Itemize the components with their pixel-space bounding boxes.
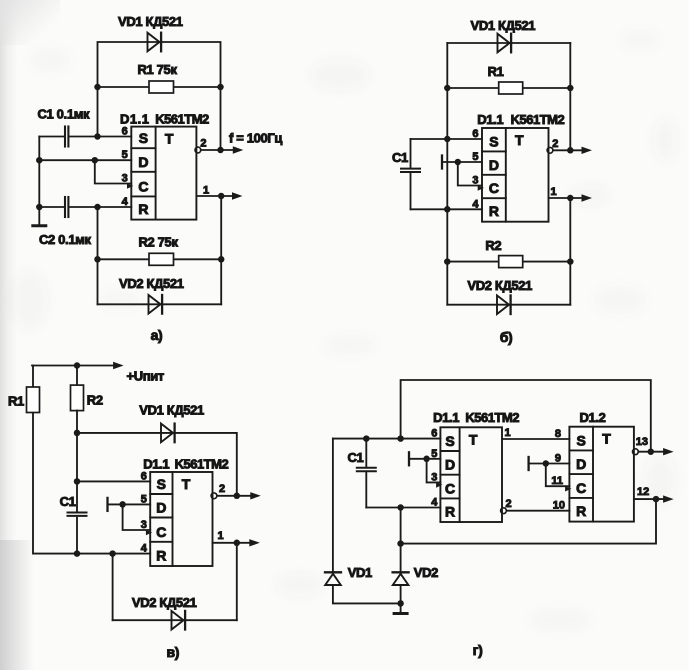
svg-text:б): б) [500,329,513,345]
svg-text:C: C [576,480,586,496]
svg-text:4: 4 [472,198,479,210]
svg-text:T: T [602,431,611,447]
svg-text:T: T [515,132,524,148]
svg-text:S: S [445,433,454,449]
svg-text:D: D [138,154,148,170]
svg-text:R: R [138,201,148,217]
svg-text:R: R [156,548,166,564]
svg-text:6: 6 [141,470,147,482]
svg-text:R1 75к: R1 75к [138,62,178,77]
svg-text:S: S [157,476,166,492]
svg-text:K561TM2: K561TM2 [155,112,209,127]
svg-text:3: 3 [141,519,147,531]
svg-text:D1.1: D1.1 [477,112,503,127]
svg-text:D1.2: D1.2 [580,410,606,425]
svg-text:K561TM2: K561TM2 [465,410,519,425]
svg-text:VD1: VD1 [348,565,372,580]
svg-text:C1: C1 [348,450,364,465]
svg-text:4: 4 [122,196,129,208]
svg-text:а): а) [151,327,163,343]
svg-text:D: D [445,457,455,473]
svg-text:C: C [445,480,455,496]
svg-text:D1.1: D1.1 [433,410,459,425]
svg-text:R2: R2 [87,393,103,408]
svg-text:S: S [139,130,148,146]
svg-text:T: T [165,131,174,147]
svg-text:C2 0.1мк: C2 0.1мк [39,232,91,247]
svg-text:4: 4 [431,497,438,509]
svg-text:3: 3 [472,175,478,187]
svg-text:D: D [576,456,586,472]
svg-text:S: S [577,432,586,448]
svg-text:1: 1 [505,427,511,439]
svg-text:6: 6 [122,126,128,138]
svg-text:10: 10 [553,500,565,512]
svg-text:R: R [576,503,586,519]
svg-text:VD2 КД521: VD2 КД521 [132,595,197,610]
svg-text:5: 5 [472,151,478,163]
svg-text:S: S [489,133,498,149]
svg-text:5: 5 [122,149,128,161]
svg-text:8: 8 [555,428,561,440]
svg-text:R2: R2 [485,238,501,253]
svg-text:5: 5 [431,448,437,460]
svg-text:11: 11 [551,475,563,487]
svg-text:T: T [469,431,478,447]
svg-text:C: C [489,180,499,196]
svg-text:K561TM2: K561TM2 [511,112,565,127]
svg-text:VD1 КД521: VD1 КД521 [118,14,183,29]
svg-text:+Uпит: +Uпит [127,369,164,384]
svg-text:R: R [445,504,455,520]
svg-text:R2 75к: R2 75к [139,234,179,249]
svg-text:D: D [156,500,166,516]
svg-text:4: 4 [141,543,148,555]
svg-text:1: 1 [551,186,557,198]
svg-text:R: R [489,203,499,219]
svg-text:3: 3 [431,471,437,483]
svg-text:2: 2 [200,137,206,149]
svg-text:D: D [489,157,499,173]
svg-text:D1.1: D1.1 [120,112,149,127]
svg-text:VD2 КД521: VD2 КД521 [467,278,532,293]
svg-text:C: C [156,524,166,540]
svg-text:6: 6 [472,128,478,140]
svg-text:K561TM2: K561TM2 [175,457,229,472]
svg-text:VD1 КД521: VD1 КД521 [471,18,536,33]
svg-text:R1: R1 [8,394,24,409]
svg-text:D1.1: D1.1 [143,457,169,472]
svg-text:VD2 КД521: VD2 КД521 [119,276,184,291]
svg-text:в): в) [167,644,180,660]
svg-text:C1: C1 [60,494,76,509]
svg-text:3: 3 [122,173,128,185]
svg-text:T: T [182,476,191,492]
svg-text:R1: R1 [488,64,504,79]
svg-text:2: 2 [219,483,225,495]
svg-text:2: 2 [552,138,558,150]
svg-text:VD1 КД521: VD1 КД521 [139,403,204,418]
svg-text:г): г) [473,642,483,658]
svg-text:5: 5 [141,493,147,505]
svg-text:1: 1 [218,530,224,542]
svg-text:6: 6 [431,428,437,440]
svg-text:C1 0.1мк: C1 0.1мк [38,106,90,121]
svg-text:C1: C1 [392,150,408,165]
svg-text:13: 13 [636,436,648,448]
svg-text:2: 2 [506,498,512,510]
svg-text:1: 1 [203,184,209,196]
svg-text:VD2: VD2 [414,565,438,580]
svg-text:9: 9 [555,453,561,465]
svg-text:f = 100Гц: f = 100Гц [229,131,282,146]
svg-text:C: C [138,178,148,194]
